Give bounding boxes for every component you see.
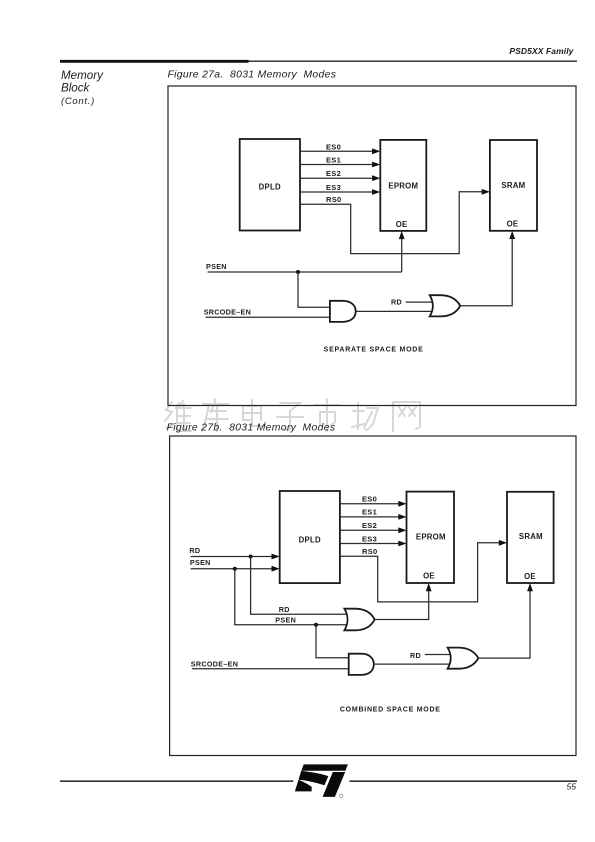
svg-text:ES0: ES0 [326, 142, 341, 151]
wire PSEN branch to AND (27a) [298, 272, 330, 307]
wire AND output (27a) [356, 310, 433, 312]
wire SRCODE-EN (27a) [206, 316, 330, 318]
and-gate U1 (27a) [330, 301, 356, 322]
svg-text:ES2: ES2 [326, 169, 341, 178]
ST logo T stem [323, 772, 346, 797]
wire ES3 (27b) [340, 543, 399, 545]
svg-text:SRCODE–EN: SRCODE–EN [204, 308, 251, 317]
wire RS0 (27b) [340, 543, 499, 602]
svg-text:PSD5XX Family: PSD5XX Family [509, 46, 574, 56]
wire RD input (27b) [191, 556, 272, 558]
node PSEN junction (27b) [233, 567, 237, 571]
wire ES0 (27b) [340, 503, 399, 505]
svg-text:RD: RD [279, 605, 290, 614]
svg-text:DPLD: DPLD [259, 183, 281, 192]
wire SRCODE-EN (27b) [192, 668, 349, 670]
wire OR1 output to EPROM OE (27b) [375, 591, 429, 620]
block EPROM (27b) [407, 492, 455, 583]
wire PSEN junction to AND (27b) [316, 625, 349, 658]
wire OR output to SRAM OE (27a) [460, 239, 512, 306]
svg-text:Figure 27a. 8031 Memory Mode: Figure 27a. 8031 Memory Modes [168, 70, 337, 81]
block SRAM (27a) [490, 140, 537, 231]
svg-text:EPROM: EPROM [388, 182, 418, 191]
wire ES2 (27a) [300, 177, 373, 179]
ST logo top bar [301, 764, 348, 770]
wire ES1 (27a) [300, 164, 373, 166]
svg-text:PSEN: PSEN [190, 558, 211, 567]
svg-text:OE: OE [524, 572, 536, 581]
or-gate U3 (27b) [344, 609, 374, 631]
ST logo [295, 764, 348, 797]
wire ES2 (27b) [340, 529, 399, 531]
block DPLD (27b) [280, 491, 340, 583]
block EPROM (27a) [380, 140, 426, 231]
block DPLD (27a) [240, 139, 300, 231]
figure 27b frame [170, 436, 576, 756]
wire AND output (27b) [374, 663, 451, 665]
svg-text:OE: OE [423, 572, 435, 581]
svg-text:ES3: ES3 [326, 183, 341, 192]
figure 27a frame [168, 86, 576, 406]
wire PSEN (27a) [208, 239, 402, 272]
svg-text:RD: RD [391, 297, 402, 306]
svg-text:55: 55 [566, 781, 576, 791]
wire ES1 (27b) [340, 516, 399, 518]
wire PSEN branch to OR1 (27b) [235, 569, 349, 625]
wire ES3 (27a) [300, 191, 373, 193]
node RD junction (27b) [249, 555, 253, 559]
svg-text:OE: OE [507, 219, 519, 228]
svg-text:SRCODE–EN: SRCODE–EN [191, 660, 238, 669]
svg-text:ES1: ES1 [326, 156, 341, 165]
wire RD branch to OR1 (27b) [251, 557, 349, 615]
svg-text:Memory: Memory [61, 69, 104, 82]
svg-text:ES2: ES2 [362, 521, 377, 530]
watermark [165, 399, 420, 431]
wire RD (27b) [425, 654, 453, 656]
svg-text:ES3: ES3 [362, 534, 377, 543]
svg-text:COMBINED SPACE MODE: COMBINED SPACE MODE [340, 706, 441, 713]
node PSEN-SRCODE junction (27b) [314, 623, 318, 627]
wire PSEN input (27b) [191, 568, 272, 570]
and-gate U4 (27b) [349, 654, 374, 675]
svg-text:RD: RD [189, 546, 200, 555]
wire RD (27a) [406, 301, 435, 303]
header rule thick [60, 60, 249, 63]
footer rule left [60, 780, 293, 782]
svg-text:EPROM: EPROM [416, 533, 446, 542]
svg-text:SEPARATE SPACE MODE: SEPARATE SPACE MODE [324, 347, 424, 354]
or-gate U2 (27a) [430, 295, 461, 316]
block SRAM (27b) [507, 492, 554, 583]
svg-text:ES1: ES1 [362, 508, 377, 517]
ST logo S middle slab [299, 771, 329, 785]
ST logo registered mark [340, 794, 343, 797]
ST logo S lower limb [295, 780, 312, 792]
node PSEN junction (27a) [296, 270, 300, 274]
svg-text:SRAM: SRAM [519, 532, 543, 541]
svg-text:OE: OE [396, 220, 408, 229]
svg-text:RD: RD [410, 651, 421, 660]
svg-text:SRAM: SRAM [501, 181, 525, 190]
svg-text:(Cont.): (Cont.) [61, 96, 95, 107]
svg-text:RS0: RS0 [362, 547, 378, 556]
wire OR2 output to SRAM OE (27b) [478, 591, 530, 658]
wire ES0 (27a) [300, 150, 373, 152]
svg-text:ES0: ES0 [362, 495, 377, 504]
or-gate U5 (27b) [448, 648, 479, 669]
svg-text:Figure 27b. 8031 Memory Mode: Figure 27b. 8031 Memory Modes [167, 422, 336, 433]
svg-text:DPLD: DPLD [299, 535, 321, 544]
svg-text:Block: Block [61, 81, 91, 94]
wire RS0 (27a) [300, 192, 482, 254]
svg-text:PSEN: PSEN [206, 262, 227, 271]
footer rule right [349, 780, 577, 782]
svg-text:PSEN: PSEN [275, 615, 296, 624]
header rule thin [249, 60, 578, 62]
svg-text:RS0: RS0 [326, 195, 342, 204]
